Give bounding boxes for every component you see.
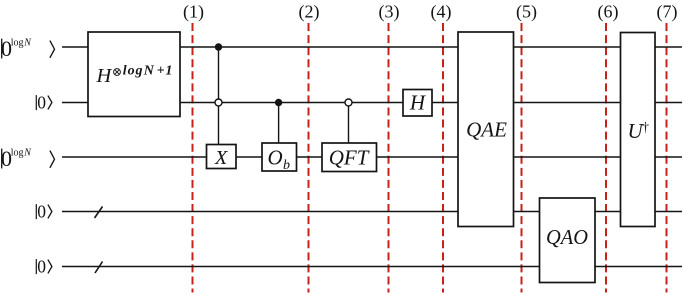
svg-text:+1: +1 <box>157 64 174 79</box>
svg-text:QAE: QAE <box>466 118 507 142</box>
wire qubit 5 <box>62 266 682 268</box>
barrier label (6) <box>598 2 619 23</box>
bus slash wire 5 <box>95 262 103 274</box>
svg-text:(1): (1) <box>183 2 204 23</box>
barrier label (4) <box>431 2 452 23</box>
control dot (filled) on qubit 2 for Ob <box>275 99 282 106</box>
svg-text:(2): (2) <box>299 2 320 23</box>
wire qubit 3 <box>62 156 682 158</box>
gate QFT <box>322 143 377 172</box>
barrier line (4) <box>442 23 444 293</box>
open control (anti-control) on qubit 2 for QFT <box>345 99 352 106</box>
barrier label (5) <box>516 2 537 23</box>
barrier line (7) <box>666 23 668 293</box>
barrier line (1) <box>192 23 194 293</box>
svg-text:0: 0 <box>37 256 46 276</box>
svg-text:0: 0 <box>37 201 46 221</box>
barrier label (2) <box>299 2 320 23</box>
gate H^(xlogN+1) hadamard bank <box>88 32 180 117</box>
svg-text:(7): (7) <box>657 2 678 23</box>
svg-text:QFT: QFT <box>329 146 370 170</box>
control wire for QFT gate <box>348 103 350 145</box>
wire qubit 4 <box>62 211 682 213</box>
svg-text:O: O <box>268 146 283 170</box>
barrier line (2) <box>308 23 310 293</box>
gate QAO quantum amplitude oracle <box>540 198 596 283</box>
gate X <box>207 145 237 169</box>
svg-text:H: H <box>96 65 113 87</box>
barrier label (3) <box>379 2 400 23</box>
barrier line (6) <box>605 23 607 293</box>
svg-text:(6): (6) <box>598 2 619 23</box>
wire qubit 2 <box>62 102 682 104</box>
ket label |0> qubit 5 <box>36 256 52 276</box>
svg-text:log: log <box>11 148 24 159</box>
barrier line (3) <box>388 23 390 293</box>
wire qubit 1 <box>62 46 682 48</box>
ket label |0> qubit 4 <box>36 201 52 221</box>
svg-text:QAO: QAO <box>546 225 588 249</box>
svg-text:H: H <box>409 91 427 115</box>
control dot (filled) on qubit 1 <box>215 43 222 50</box>
ket label |0> qubit 2 <box>36 92 52 112</box>
svg-text:N: N <box>143 64 155 79</box>
svg-text:(4): (4) <box>431 2 452 23</box>
svg-text:(5): (5) <box>516 2 537 23</box>
svg-text:b: b <box>283 158 290 173</box>
svg-text:X: X <box>214 147 229 169</box>
barrier line (5) <box>521 23 523 293</box>
ket label |0^logN> qubit 1 <box>1 36 55 61</box>
control wire for X gate <box>218 47 220 145</box>
svg-text:0: 0 <box>37 92 46 112</box>
gate H on qubit 2 <box>403 90 432 117</box>
gate U-dagger inverse unitary <box>621 33 656 227</box>
bus slash wire 4 <box>95 207 103 219</box>
control wire for Ob gate <box>278 103 280 145</box>
gate Ob oracle <box>262 143 297 173</box>
svg-text:log: log <box>123 64 144 79</box>
barrier label (7) <box>657 2 678 23</box>
svg-text:N: N <box>23 38 32 49</box>
svg-text:log: log <box>11 38 24 49</box>
ket label |0^logN> qubit 3 <box>1 146 55 171</box>
svg-text:N: N <box>23 148 32 159</box>
gate QAE quantum amplitude estimation <box>458 32 514 227</box>
open control (anti-control) on qubit 2 for X gate <box>215 99 222 106</box>
svg-text:(3): (3) <box>379 2 400 23</box>
barrier label (1) <box>183 2 204 23</box>
svg-text:†: † <box>642 121 649 136</box>
